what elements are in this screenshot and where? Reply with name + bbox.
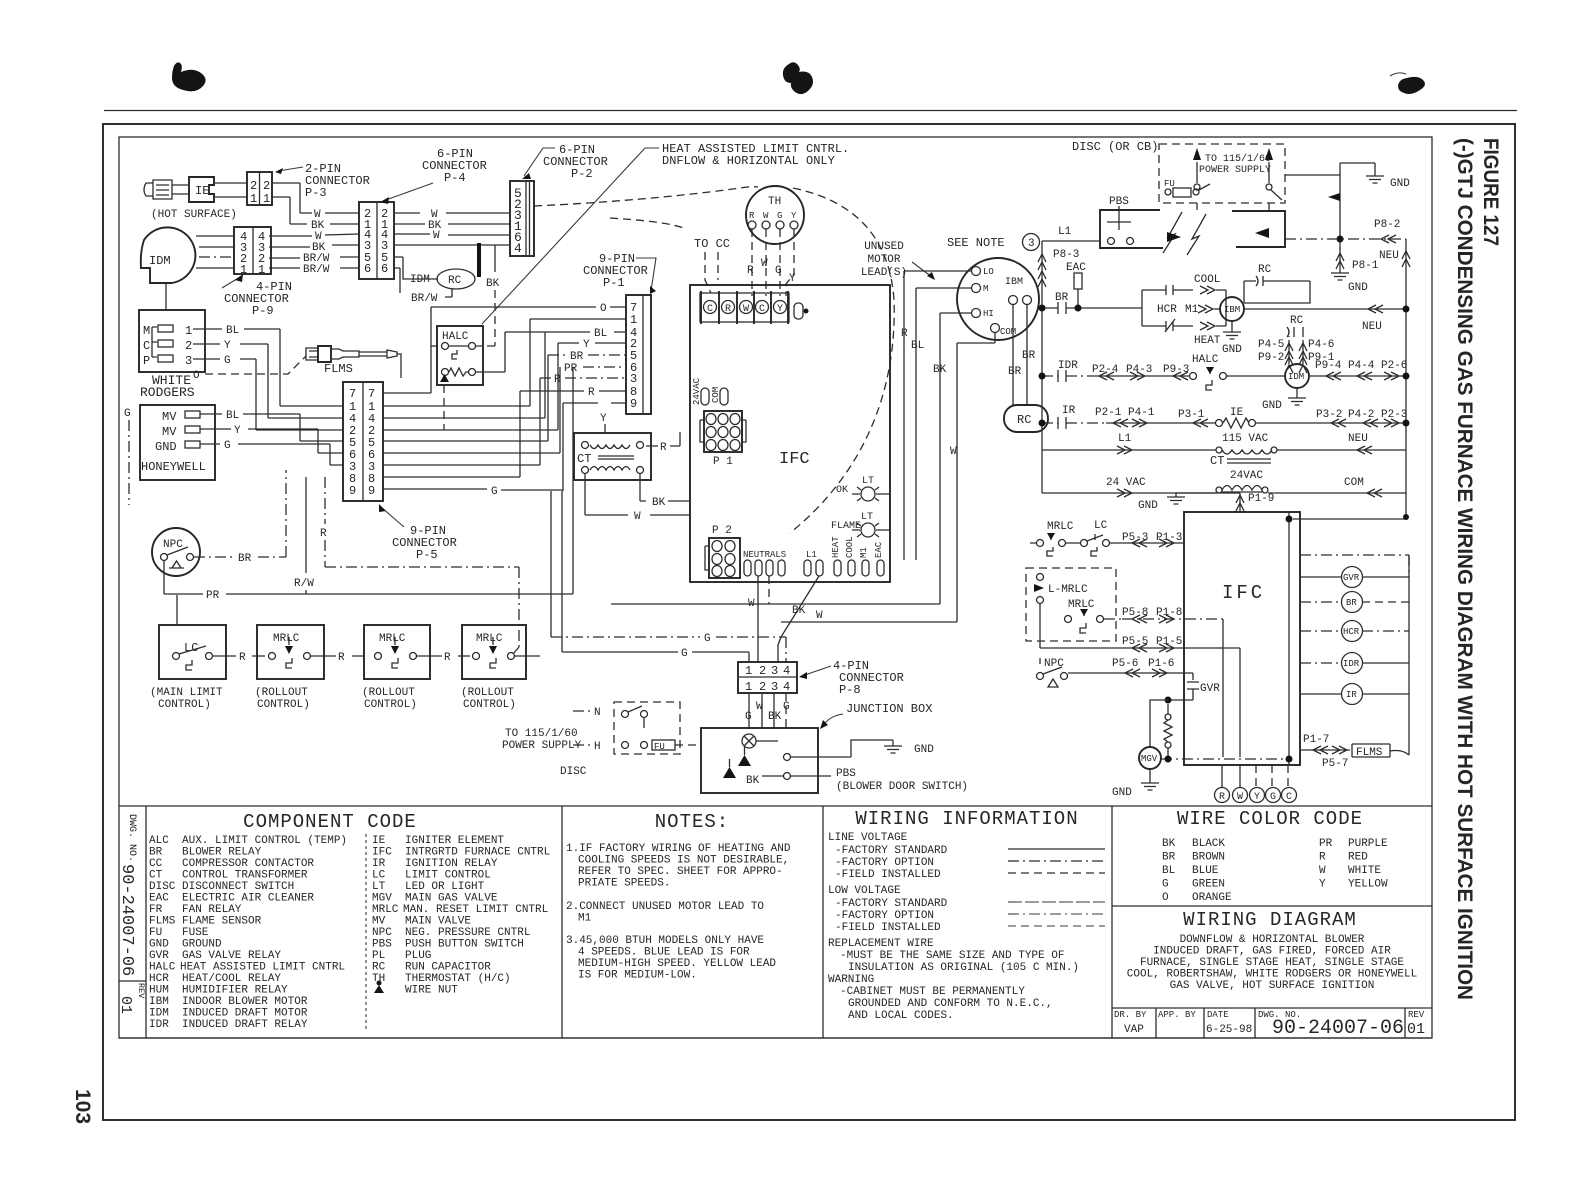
svg-text:TO 115/1/60: TO 115/1/60 bbox=[1205, 153, 1271, 165]
dashed enclosure MRLC bbox=[1026, 568, 1116, 641]
wires TO CC bbox=[694, 237, 730, 293]
svg-text:2: 2 bbox=[185, 339, 192, 353]
dashed IFC boundary curve bbox=[790, 188, 894, 533]
svg-text:TH: TH bbox=[768, 196, 781, 208]
svg-text:1: 1 bbox=[250, 192, 257, 206]
svg-text:PLUG: PLUG bbox=[405, 950, 431, 962]
svg-text:BR: BR bbox=[238, 553, 252, 565]
svg-text:2: 2 bbox=[759, 680, 766, 694]
svg-text:VAP: VAP bbox=[1124, 1024, 1144, 1036]
svg-text:P2-6: P2-6 bbox=[1381, 360, 1407, 372]
svg-text:W: W bbox=[1237, 792, 1243, 803]
svg-text:24VAC: 24VAC bbox=[1230, 470, 1263, 482]
wire W bottom bus bbox=[781, 610, 957, 622]
relay BR circle bbox=[1300, 592, 1409, 613]
svg-text:LC: LC bbox=[184, 641, 198, 655]
svg-text:Y: Y bbox=[777, 304, 783, 315]
svg-text:RUN CAPACITOR: RUN CAPACITOR bbox=[405, 962, 491, 974]
wire G long lower 1 bbox=[551, 491, 786, 662]
power supply dashed box (right) bbox=[1159, 144, 1285, 203]
wire 24VAC row bbox=[1042, 470, 1406, 497]
svg-text:1: 1 bbox=[185, 324, 192, 338]
wire W pill down bbox=[748, 576, 758, 662]
svg-text:GROUNDED AND CONFORM TO N.E.C.: GROUNDED AND CONFORM TO N.E.C., bbox=[848, 998, 1053, 1010]
wire 115 VAC row bbox=[1042, 433, 1406, 454]
pbs blower door switch bbox=[791, 768, 968, 793]
svg-text:R: R bbox=[320, 528, 327, 540]
svg-text:-FACTORY STANDARD: -FACTORY STANDARD bbox=[835, 898, 948, 910]
svg-text:EAC: EAC bbox=[1066, 262, 1086, 274]
svg-text:NPC: NPC bbox=[1044, 658, 1064, 670]
wire G honeywell bbox=[200, 440, 343, 465]
wire P5-5 P1-5 row bbox=[1040, 604, 1240, 757]
svg-text:NEU: NEU bbox=[1362, 321, 1382, 333]
svg-text:GREEN: GREEN bbox=[1192, 879, 1225, 891]
svg-text:LT: LT bbox=[372, 881, 386, 893]
relay HCR circle bbox=[1300, 621, 1409, 642]
svg-text:MRLC: MRLC bbox=[273, 633, 300, 645]
svg-text:G: G bbox=[491, 486, 498, 498]
svg-text:LINE VOLTAGE: LINE VOLTAGE bbox=[828, 832, 908, 844]
terminal strip C R W C Y bbox=[700, 291, 789, 324]
svg-text:2: 2 bbox=[250, 179, 257, 193]
wire Y row2 P5-P1 bbox=[383, 339, 626, 430]
svg-text:R: R bbox=[1319, 852, 1326, 864]
disc or cb label bbox=[1072, 140, 1158, 154]
neg pressure control NPC (right) bbox=[1037, 658, 1068, 687]
svg-text:PL: PL bbox=[372, 950, 385, 962]
svg-text:AUX. LIMIT CONTROL (TEMP): AUX. LIMIT CONTROL (TEMP) bbox=[182, 835, 347, 847]
svg-text:WIRE COLOR CODE: WIRE COLOR CODE bbox=[1177, 808, 1363, 830]
wire G left frame vertical bbox=[124, 408, 131, 505]
pills 24VAC COM bbox=[692, 377, 728, 405]
wire IDR row labels bbox=[1092, 364, 1189, 380]
svg-text:M1: M1 bbox=[1185, 304, 1199, 316]
svg-text:RODGERS: RODGERS bbox=[140, 385, 195, 400]
svg-text:FLAME SENSOR: FLAME SENSOR bbox=[182, 916, 262, 928]
svg-text:INSULATION AS ORIGINAL (105 C: INSULATION AS ORIGINAL (105 C MIN.) bbox=[848, 962, 1079, 974]
wire row1 P5-P1 bbox=[383, 319, 626, 406]
neg pressure control NPC bbox=[152, 528, 200, 576]
svg-text:M: M bbox=[143, 324, 150, 338]
wire BK P4 to P2 bbox=[394, 220, 510, 232]
switches MRLC LC row bbox=[1030, 520, 1122, 556]
svg-text:W: W bbox=[743, 304, 749, 315]
svg-text:REPLACEMENT WIRE: REPLACEMENT WIRE bbox=[828, 938, 934, 950]
svg-text:P 1: P 1 bbox=[713, 456, 733, 468]
svg-text:IDM: IDM bbox=[410, 274, 430, 286]
svg-text:IE: IE bbox=[372, 835, 386, 847]
connector P-1 (9-pin) bbox=[583, 252, 656, 414]
integrated furnace control box bbox=[690, 285, 890, 582]
svg-text:3: 3 bbox=[630, 372, 637, 386]
disconnect DISC dashed box bbox=[502, 702, 701, 778]
svg-text:M1: M1 bbox=[578, 913, 592, 925]
svg-text:WIRE NUT: WIRE NUT bbox=[405, 985, 458, 997]
svg-text:24 VAC: 24 VAC bbox=[1106, 477, 1146, 489]
svg-text:IE: IE bbox=[195, 184, 209, 198]
svg-text:R: R bbox=[239, 652, 246, 664]
svg-text:GND: GND bbox=[1112, 787, 1132, 799]
svg-text:HEAT ASSISTED LIMIT CNTRL: HEAT ASSISTED LIMIT CNTRL bbox=[180, 962, 345, 974]
svg-text:L1: L1 bbox=[1118, 433, 1132, 445]
svg-text:Y: Y bbox=[234, 425, 241, 437]
rollout control MRLC 3 bbox=[461, 625, 526, 711]
svg-text:CONTROL): CONTROL) bbox=[257, 699, 310, 711]
svg-text:FR: FR bbox=[149, 904, 163, 916]
svg-text:W: W bbox=[950, 446, 957, 458]
svg-text:6-25-98: 6-25-98 bbox=[1206, 1024, 1252, 1036]
svg-text:DISC: DISC bbox=[149, 881, 176, 893]
svg-text:P8-3: P8-3 bbox=[1053, 249, 1079, 261]
svg-text:1: 1 bbox=[745, 680, 752, 694]
wires BR to run capacitor bbox=[1008, 305, 1036, 405]
wire W motor bbox=[950, 333, 995, 622]
svg-text:P-5: P-5 bbox=[416, 548, 438, 562]
svg-text:C: C bbox=[707, 304, 713, 315]
ink speck top-center bbox=[783, 62, 813, 94]
induced draft relay IDR contact bbox=[1039, 360, 1094, 382]
wiring information panel bbox=[828, 806, 1112, 1038]
wire NEU row bbox=[1244, 305, 1410, 333]
wire P5-3 P1-3 row bbox=[1122, 532, 1184, 547]
svg-text:WIRING INFORMATION: WIRING INFORMATION bbox=[855, 808, 1078, 830]
svg-text:INDUCED DRAFT MOTOR: INDUCED DRAFT MOTOR bbox=[182, 1008, 308, 1020]
connector P-4 (6-pin) bbox=[359, 147, 487, 279]
dwg number side strip bbox=[117, 806, 146, 1038]
outer page frame bbox=[103, 124, 1515, 1120]
svg-text:R/W: R/W bbox=[294, 578, 314, 590]
svg-text:115 VAC: 115 VAC bbox=[1222, 433, 1269, 445]
control transformer CT bbox=[1210, 450, 1272, 493]
svg-text:BK: BK bbox=[746, 775, 760, 787]
wire color code panel bbox=[1162, 808, 1388, 904]
svg-text:GAS VALVE RELAY: GAS VALVE RELAY bbox=[182, 950, 281, 962]
wire BL white rodgers bbox=[193, 325, 343, 406]
svg-text:1: 1 bbox=[258, 263, 265, 277]
svg-text:1.IF FACTORY WIRING OF HEATING: 1.IF FACTORY WIRING OF HEATING AND bbox=[566, 843, 791, 855]
svg-text:BR: BR bbox=[1162, 852, 1176, 864]
induced draft motor IDM (top left) bbox=[141, 227, 196, 310]
svg-text:REV: REV bbox=[136, 983, 146, 999]
notes panel bbox=[566, 806, 823, 1038]
svg-text:P4-3: P4-3 bbox=[1126, 364, 1152, 376]
svg-text:GVR: GVR bbox=[149, 950, 169, 962]
svg-text:BR/W: BR/W bbox=[411, 293, 438, 305]
wire BK row4 P4 to P2 bbox=[394, 245, 510, 346]
wire BL motor bbox=[911, 288, 971, 560]
induced draft motor IDM circle (ladder) bbox=[1285, 364, 1309, 388]
igniter element IE (hot surface) bbox=[144, 177, 237, 221]
ink bar artifact bbox=[477, 243, 481, 277]
svg-text:BR: BR bbox=[149, 847, 163, 859]
wire W P3 to P4 bbox=[272, 183, 359, 221]
svg-text:PR: PR bbox=[206, 590, 220, 602]
svg-text:MRLC: MRLC bbox=[372, 904, 399, 916]
svg-text:PBS: PBS bbox=[836, 768, 856, 780]
svg-text:C: C bbox=[143, 339, 150, 353]
svg-text:GVR: GVR bbox=[1200, 683, 1220, 695]
wire O to flame sensor bbox=[193, 356, 306, 382]
svg-text:R: R bbox=[1219, 792, 1225, 803]
svg-text:W: W bbox=[1319, 865, 1326, 877]
svg-text:HEAT/COOL RELAY: HEAT/COOL RELAY bbox=[182, 973, 281, 985]
svg-text:BROWN: BROWN bbox=[1192, 852, 1225, 864]
svg-text:P8-1: P8-1 bbox=[1352, 260, 1379, 272]
svg-text:2: 2 bbox=[263, 179, 270, 193]
svg-text:-FACTORY OPTION: -FACTORY OPTION bbox=[835, 857, 934, 869]
svg-text:P2-1: P2-1 bbox=[1095, 407, 1122, 419]
svg-text:DISC (OR CB): DISC (OR CB) bbox=[1072, 140, 1158, 154]
svg-text:POWER SUPPLY: POWER SUPPLY bbox=[1199, 165, 1271, 176]
svg-text:R: R bbox=[660, 442, 667, 454]
wire R row8 P5-P1 bbox=[383, 387, 626, 477]
svg-text:HALC: HALC bbox=[149, 962, 176, 974]
led FLAME LT bbox=[831, 512, 890, 537]
integrated furnace control IFC box (right) bbox=[1184, 512, 1300, 765]
svg-text:ALC: ALC bbox=[149, 835, 169, 847]
wire BR row5 P5-P1 bbox=[383, 351, 626, 441]
wire nut at strip bbox=[794, 303, 809, 319]
svg-text:DISC: DISC bbox=[560, 766, 587, 778]
svg-text:BR/W: BR/W bbox=[303, 264, 330, 276]
svg-text:NEG. PRESSURE CNTRL: NEG. PRESSURE CNTRL bbox=[405, 927, 530, 939]
wire IDR row right labels bbox=[1309, 360, 1410, 380]
svg-text:C: C bbox=[759, 304, 765, 315]
svg-text:BK: BK bbox=[768, 711, 782, 723]
svg-text:P5-7: P5-7 bbox=[1322, 758, 1348, 770]
wire Y ct bbox=[600, 413, 607, 433]
svg-text:APP. BY: APP. BY bbox=[1158, 1010, 1196, 1020]
svg-text:MGV: MGV bbox=[1141, 754, 1158, 764]
svg-text:P1-3: P1-3 bbox=[1156, 532, 1182, 544]
svg-text:9: 9 bbox=[349, 484, 356, 498]
svg-text:GND: GND bbox=[155, 440, 177, 454]
blower relay BR contact bbox=[1039, 292, 1143, 314]
svg-text:BL: BL bbox=[1162, 865, 1175, 877]
svg-text:GAS VALVE, HOT SURFACE IGNITIO: GAS VALVE, HOT SURFACE IGNITION bbox=[1170, 980, 1375, 992]
wire IR row right bbox=[1256, 409, 1410, 427]
svg-text:MRLC: MRLC bbox=[476, 633, 503, 645]
svg-text:COM: COM bbox=[1000, 327, 1016, 337]
wire BR npc bbox=[194, 470, 286, 565]
svg-text:IR: IR bbox=[1062, 405, 1076, 417]
svg-text:C: C bbox=[1286, 792, 1292, 803]
indoor blower motor IBM circle bbox=[1220, 297, 1244, 321]
wire R lc-mrlc1 bbox=[213, 652, 265, 664]
svg-text:MRLC: MRLC bbox=[379, 633, 406, 645]
wire PR row6 P5-P1 bbox=[383, 363, 626, 453]
svg-text:1: 1 bbox=[263, 192, 270, 206]
wire BL row4 P5-P1 bbox=[383, 328, 626, 418]
heat assisted limit label bbox=[482, 142, 849, 324]
svg-text:9: 9 bbox=[368, 484, 375, 498]
svg-text:4: 4 bbox=[514, 241, 522, 256]
wire R motor bbox=[901, 271, 971, 560]
svg-text:LT: LT bbox=[861, 512, 873, 523]
svg-text:L1: L1 bbox=[1058, 226, 1072, 238]
rollout control MRLC 1 bbox=[255, 625, 324, 711]
relay IDR circle bbox=[1300, 653, 1409, 674]
svg-text:1: 1 bbox=[745, 664, 752, 678]
svg-text:G: G bbox=[745, 711, 752, 723]
wire R mrlc2-mrlc3 bbox=[417, 652, 470, 664]
svg-text:IBM: IBM bbox=[149, 996, 169, 1008]
svg-text:6: 6 bbox=[364, 262, 371, 276]
svg-text:P 2: P 2 bbox=[712, 525, 732, 537]
svg-text:CONTROL): CONTROL) bbox=[463, 699, 516, 711]
svg-text:RC: RC bbox=[448, 275, 462, 287]
svg-text:CT: CT bbox=[577, 452, 591, 466]
see note 3 bbox=[947, 234, 1040, 251]
ignition relay IR contact bbox=[1039, 405, 1107, 429]
connector P-2 (6-pin) bbox=[510, 143, 608, 256]
svg-text:GND: GND bbox=[914, 744, 934, 756]
svg-text:IDR: IDR bbox=[149, 1019, 169, 1031]
svg-text:R: R bbox=[901, 328, 908, 340]
svg-text:NPC: NPC bbox=[372, 927, 392, 939]
svg-text:P9-4: P9-4 bbox=[1315, 360, 1342, 372]
svg-text:COOL, ROBERTSHAW, WHITE RODGER: COOL, ROBERTSHAW, WHITE RODGERS OR HONEY… bbox=[1127, 969, 1417, 981]
inner drawing frame bbox=[119, 137, 1432, 1038]
svg-text:COOL: COOL bbox=[845, 536, 855, 558]
wires IDM to P-9 bbox=[196, 236, 234, 268]
wire BR/W P9 to P4 bbox=[269, 253, 359, 265]
svg-text:L-MRLC: L-MRLC bbox=[1048, 584, 1088, 596]
svg-text:-FIELD INSTALLED: -FIELD INSTALLED bbox=[835, 922, 941, 934]
strip pills neutrals bbox=[743, 550, 786, 576]
wire R ct bbox=[646, 432, 680, 454]
svg-text:WIRING DIAGRAM: WIRING DIAGRAM bbox=[1183, 909, 1357, 931]
svg-text:W: W bbox=[634, 511, 641, 523]
svg-text:3: 3 bbox=[1028, 238, 1035, 250]
svg-text:3: 3 bbox=[771, 680, 778, 694]
svg-text:BK: BK bbox=[486, 278, 500, 290]
svg-text:G: G bbox=[1270, 792, 1276, 803]
svg-text:2.CONNECT UNUSED MOTOR LEAD TO: 2.CONNECT UNUSED MOTOR LEAD TO bbox=[566, 901, 764, 913]
svg-text:P-9: P-9 bbox=[252, 304, 274, 318]
svg-text:Y: Y bbox=[1254, 792, 1260, 803]
led OK LT bbox=[836, 476, 890, 501]
svg-text:DWG. NO.: DWG. NO. bbox=[126, 814, 137, 862]
wire BK diagonal pill bbox=[778, 576, 819, 662]
wire BR/W row 6 bbox=[269, 264, 359, 276]
connector P2 grid bbox=[705, 525, 740, 578]
wire mrlc3 to riser bbox=[515, 655, 540, 657]
wire to P8-1 vertical bbox=[1285, 163, 1344, 248]
svg-text:G: G bbox=[704, 633, 711, 645]
wire IE to P-3 bbox=[214, 183, 247, 197]
wire P8-3 chevrons bbox=[1038, 249, 1079, 287]
svg-text:P1-6: P1-6 bbox=[1148, 658, 1174, 670]
svg-text:(-)GTJ CONDENSING GAS FURNACE: (-)GTJ CONDENSING GAS FURNACE WIRING DIA… bbox=[1453, 138, 1476, 1000]
wire BK motor bbox=[933, 313, 971, 604]
svg-text:HCR: HCR bbox=[1343, 627, 1360, 637]
svg-text:(ROLLOUT: (ROLLOUT bbox=[362, 687, 415, 699]
wire BL honeywell bbox=[200, 410, 343, 441]
page number 103 bbox=[71, 1089, 94, 1124]
wiring diagram panel bbox=[1112, 906, 1432, 992]
svg-text:WARNING: WARNING bbox=[828, 974, 874, 986]
svg-text:IDR: IDR bbox=[1058, 360, 1078, 372]
svg-text:P9-2: P9-2 bbox=[1258, 352, 1284, 364]
svg-text:BL: BL bbox=[226, 410, 239, 422]
heat assisted limit control HALC switch bbox=[1190, 354, 1287, 390]
wire BK P3 to P4 bbox=[272, 197, 359, 232]
table top border bbox=[119, 805, 1432, 807]
svg-text:M: M bbox=[983, 284, 988, 294]
svg-text:CONTROL): CONTROL) bbox=[364, 699, 417, 711]
svg-text:-FIELD INSTALLED: -FIELD INSTALLED bbox=[835, 869, 941, 881]
component code panel bbox=[243, 806, 562, 1038]
svg-text:W: W bbox=[761, 258, 768, 270]
svg-text:P-3: P-3 bbox=[305, 186, 327, 200]
wire MGV row to IFC bbox=[1161, 756, 1286, 763]
svg-text:R: R bbox=[749, 211, 755, 221]
svg-text:GROUND: GROUND bbox=[182, 939, 222, 951]
svg-text:CONTROL TRANSFORMER: CONTROL TRANSFORMER bbox=[182, 870, 308, 882]
svg-text:BLOWER RELAY: BLOWER RELAY bbox=[182, 847, 262, 859]
svg-text:NPC: NPC bbox=[163, 539, 183, 551]
svg-text:RED: RED bbox=[1348, 852, 1368, 864]
svg-text:Y: Y bbox=[1319, 879, 1326, 891]
svg-text:FURNACE, SINGLE STAGE HEAT, SI: FURNACE, SINGLE STAGE HEAT, SINGLE STAGE bbox=[1140, 957, 1404, 969]
svg-text:BL: BL bbox=[594, 328, 607, 340]
svg-text:IBM: IBM bbox=[1224, 305, 1240, 315]
svg-text:FLAME: FLAME bbox=[831, 521, 861, 532]
rollout control MRLC 2 bbox=[362, 625, 430, 711]
svg-text:R: R bbox=[338, 652, 345, 664]
svg-text:4: 4 bbox=[783, 664, 790, 678]
wire PR riser to P1 bbox=[572, 367, 574, 594]
svg-text:P-1: P-1 bbox=[603, 276, 625, 290]
svg-text:4: 4 bbox=[783, 680, 790, 694]
svg-text:REFER TO SPEC. SHEET FOR APPRO: REFER TO SPEC. SHEET FOR APPRO- bbox=[578, 866, 783, 878]
svg-text:HUMIDIFIER RELAY: HUMIDIFIER RELAY bbox=[182, 985, 288, 997]
svg-text:NEU: NEU bbox=[1379, 250, 1399, 262]
svg-text:INTRGRTD FURNACE CNTRL: INTRGRTD FURNACE CNTRL bbox=[405, 847, 550, 859]
push button switch PBS bbox=[1100, 196, 1285, 255]
svg-text:-FACTORY OPTION: -FACTORY OPTION bbox=[835, 910, 934, 922]
svg-text:O: O bbox=[600, 303, 607, 315]
svg-text:FUSE: FUSE bbox=[182, 927, 209, 939]
svg-text:EAC: EAC bbox=[149, 893, 169, 905]
svg-text:COOLING SPEEDS IS NOT DESIRABL: COOLING SPEEDS IS NOT DESIRABLE, bbox=[578, 855, 789, 867]
svg-text:M1: M1 bbox=[859, 547, 869, 558]
svg-text:1: 1 bbox=[240, 263, 247, 277]
wire P5-6 P1-6 row bbox=[1068, 658, 1193, 677]
svg-text:4 SPEEDS. BLUE LEAD IS FOR: 4 SPEEDS. BLUE LEAD IS FOR bbox=[578, 947, 750, 959]
svg-text:P8-2: P8-2 bbox=[1374, 219, 1400, 231]
run capacitor RC (idm ladder) bbox=[1287, 315, 1304, 337]
svg-text:Y: Y bbox=[224, 340, 231, 352]
svg-text:CONTROL): CONTROL) bbox=[158, 699, 211, 711]
wire W ct bbox=[585, 474, 690, 523]
svg-text:103: 103 bbox=[71, 1089, 94, 1124]
svg-text:IFC: IFC bbox=[372, 847, 392, 859]
flame sensor FLMS bbox=[306, 346, 401, 378]
svg-text:INDUCED DRAFT RELAY: INDUCED DRAFT RELAY bbox=[182, 1019, 308, 1031]
svg-text:P1-9: P1-9 bbox=[1248, 493, 1274, 505]
svg-text:(MAIN LIMIT: (MAIN LIMIT bbox=[150, 687, 223, 699]
svg-text:PUSH BUTTON SWITCH: PUSH BUTTON SWITCH bbox=[405, 939, 524, 951]
svg-text:DNFLOW & HORIZONTAL ONLY: DNFLOW & HORIZONTAL ONLY bbox=[662, 154, 835, 168]
svg-text:INDOOR BLOWER MOTOR: INDOOR BLOWER MOTOR bbox=[182, 996, 308, 1008]
svg-text:THERMOSTAT (H/C): THERMOSTAT (H/C) bbox=[405, 973, 511, 985]
svg-text:BL: BL bbox=[911, 340, 924, 352]
wire W P9 to P4 bbox=[269, 231, 359, 243]
svg-text:LC: LC bbox=[372, 870, 386, 882]
